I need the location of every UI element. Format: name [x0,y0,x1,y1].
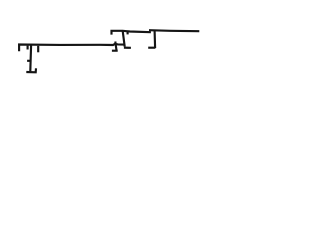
ground G1: bottom foot with right hook [26,68,36,72]
wire: right foot of stem A [124,47,131,49]
wire: stem B dropping from top net [154,31,157,48]
ground G1: vertical stem from net N1 [29,45,32,71]
stub: small tick on top net [127,32,129,35]
wire: left foot of crossing stub [112,50,118,52]
ground G1: mid left tick [27,60,31,62]
stub: short tap tick T1 hanging from net N1 [27,46,29,50]
wire: top net left part with end tick [112,31,151,35]
wire: top net right part [149,30,199,31]
wire: left corner drop + long horizontal net N1 [19,44,124,51]
wire: left foot of stem B [148,47,155,49]
stem A: vertical from top net crossbar down to right foot [123,31,125,47]
stub: tap tick T2 hanging from net N1 [37,46,39,53]
stub: slanted tick crossing net N1 [115,42,116,51]
